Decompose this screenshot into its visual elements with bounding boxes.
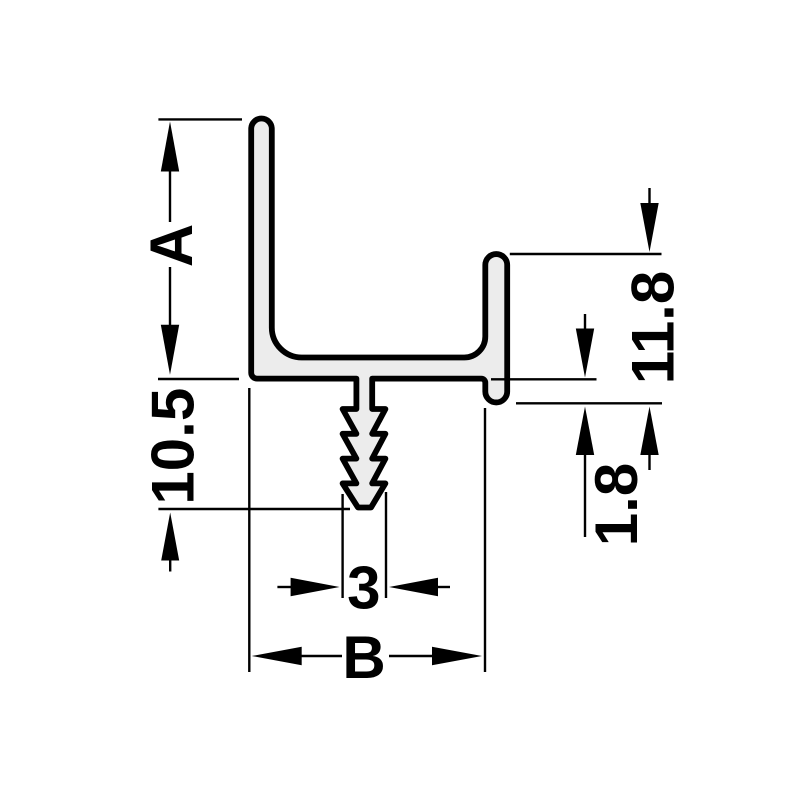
tail 10.5 arrow	[169, 559, 171, 572]
svg-text:B: B	[342, 624, 385, 691]
svg-text:A: A	[138, 224, 205, 267]
arrow 10.5 up (below line)	[161, 513, 179, 561]
arrow 11.8 down (above top line)	[640, 203, 658, 252]
arrow 1.8 up (below bottom line)	[576, 407, 594, 456]
extension line 3 left	[341, 494, 343, 598]
dim line B left segment	[301, 655, 342, 657]
extension line 11.8/1.8 bottom	[516, 402, 662, 404]
extension line 11.8 top	[510, 253, 662, 255]
arrow 3 right (pointing left)	[389, 578, 438, 596]
extension line B left	[248, 388, 250, 672]
arrow B right (pointing right)	[432, 647, 482, 665]
svg-text:11.8: 11.8	[620, 271, 687, 384]
extension line 10.5 bottom	[158, 508, 350, 510]
dim line B right segment	[389, 655, 433, 657]
arrow A down	[161, 325, 179, 375]
profile cross-section	[251, 119, 507, 508]
extension line A top	[158, 118, 242, 120]
dim line A upper segment	[169, 170, 171, 222]
extension line A bottom / 10.5 top	[158, 378, 239, 380]
arrow B left (pointing left)	[252, 647, 302, 665]
extension line 1.8 top	[491, 378, 597, 380]
svg-text:1.8: 1.8	[583, 463, 650, 546]
extension line B right	[484, 408, 486, 672]
svg-text:10.5: 10.5	[140, 388, 207, 505]
dim line A lower segment	[169, 267, 171, 326]
arrow A up	[161, 122, 179, 172]
svg-text:3: 3	[347, 554, 380, 621]
arrow 3 left (pointing right)	[291, 578, 340, 596]
arrow 1.8 down (above its top line)	[576, 329, 594, 378]
arrow 11.8 up (below bottom line)	[640, 407, 658, 456]
extension line 3 right	[385, 492, 387, 598]
